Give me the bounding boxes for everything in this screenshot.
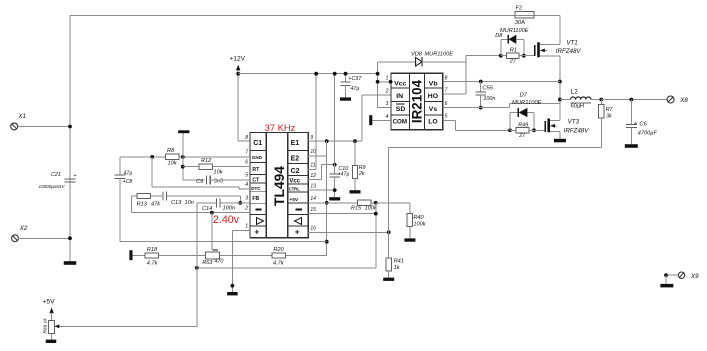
wire R69 to ground [51,333,53,339]
svg-text:R63: R63 [202,260,212,266]
svg-text:R40: R40 [413,215,424,221]
svg-text:47k: 47k [151,201,161,207]
node above ground [231,284,235,288]
node E1 junction [325,139,329,143]
wire R40 jog [376,202,410,204]
wire X9 to ground [666,274,678,276]
wire node to R12 [183,166,199,168]
transistor Q2 VT3 IRFZ48V [544,121,546,132]
svg-text:27: 27 [509,58,517,64]
svg-text:TL494: TL494 [272,166,287,206]
node CTRL junction [333,188,337,192]
wire R1 to VT1 gate [519,55,535,57]
svg-text:IN: IN [396,93,403,100]
wire Vs pin6 row [443,107,510,109]
op-amp U1 TL494 body [250,133,308,238]
svg-text:2.40v: 2.40v [213,214,240,226]
wire R9 to ground [354,178,356,190]
svg-text:VT3: VT3 [568,118,580,125]
wire E2 pin10 to E1 [308,155,327,157]
svg-text:47µ: 47µ [351,86,360,92]
svg-text:2: 2 [244,206,248,212]
svg-text:15: 15 [310,207,316,213]
svg-text:E2: E2 [291,156,300,163]
svg-text:L2: L2 [571,88,578,95]
svg-text:VD8: VD8 [411,51,423,57]
node +12V VD8 junction [376,72,380,76]
svg-text:R49: R49 [518,122,528,128]
pin label minus right [296,209,302,211]
svg-text:R20: R20 [273,247,284,253]
node junction X2-rail [68,236,72,240]
svg-text:HO: HO [428,93,438,100]
wire pin15 vertical [375,203,377,268]
svg-text:Vs: Vs [429,106,438,113]
svg-text:C9: C9 [196,179,203,185]
svg-text:RT: RT [252,167,260,173]
transistor Q1 VT1 IRFZ48V [534,45,536,56]
svg-text:4: 4 [386,114,389,120]
svg-text:GND: GND [252,155,263,160]
svg-text:5: 5 [245,173,248,179]
wire pin2 up to R13 [131,196,133,213]
svg-text:FB: FB [252,196,259,202]
ground below C6 [625,144,638,148]
svg-text:VT1: VT1 [566,40,577,47]
node R9 junction [353,139,357,143]
svg-text:+47µ: +47µ [338,172,350,178]
svg-text:470: 470 [214,258,223,264]
wire R41 to pin16 [388,232,390,258]
wire TL494 pin 8 C1 to +12V [238,140,250,142]
wire +12V vertical to TL494 pin 8 [237,70,239,141]
node C14 return junction [195,266,199,270]
svg-text:100k: 100k [413,222,426,228]
node C55 top junction [479,80,483,84]
svg-text:+: + [295,227,300,237]
wire output sense vertical [388,147,390,232]
svg-text:8: 8 [445,75,448,81]
svg-text:CT: CT [252,177,260,183]
svg-text:4700µF: 4700µF [638,131,658,137]
svg-text:C1: C1 [253,140,262,147]
capacitor C13 10n [162,192,164,201]
terminal X8 [667,96,674,103]
node C8-R8-DTC junction [150,155,154,159]
node pin16 junction [387,230,391,234]
node Vcc junction [333,163,337,167]
ground stub at COM [369,115,372,125]
resistor R41 1k [386,258,391,271]
svg-text:COM: COM [393,118,407,125]
svg-text:+C37: +C37 [348,76,362,82]
wire C2 pin11 to +12V [308,169,316,171]
wire R69 wiper long run [55,325,197,327]
wire SD pin3 [378,106,391,108]
wire VT3 source to ground [559,131,561,139]
node switch node junction [558,98,562,102]
wire +5V node vertical [326,141,328,255]
svg-text:2k: 2k [358,171,365,177]
wire R12 to TL494 pin 6 RT [213,166,250,168]
ground below C37 [340,97,351,100]
svg-text:R18: R18 [147,247,158,253]
node +12V junction [236,72,240,76]
capacitor C9 3n3 [206,175,208,184]
svg-text:7: 7 [445,88,448,94]
resistor R1 27 [501,55,507,57]
wire HO node to R1 D8 [466,55,501,57]
svg-text:Vcc: Vcc [289,179,300,185]
wire LO pin5 jog [443,119,456,121]
node +5V to divider junction [325,240,329,244]
wire TL494 pin 2 long run [132,212,251,214]
svg-text:X2: X2 [19,225,28,232]
wire Vb pin8 row [443,81,560,83]
wire R13 to C13 [151,195,162,197]
svg-text:E1: E1 [291,140,300,147]
inductor L2 60uH [560,99,571,101]
resistor R15 100k [358,200,372,205]
wire C55 bottom to Vs [480,95,482,108]
node D8 right junction [522,54,526,58]
svg-text:14: 14 [310,196,316,202]
fuse F2 30A [515,11,534,18]
node FB junction [238,201,242,205]
svg-text:R69 1k: R69 1k [42,318,48,334]
svg-text:X9: X9 [690,273,699,280]
wire TL494 pin1 to ground [232,230,250,232]
wire HO pin7 [443,93,466,95]
wire +12V horizontal rail [238,73,377,75]
wire +5V return row to C8 [120,241,327,243]
svg-text:F2: F2 [516,6,523,12]
ground stub left of R18 [129,250,132,260]
wire R63 to R20 [220,255,272,257]
svg-text:2: 2 [385,88,389,94]
wire C8 bottom down to +5V return row [119,178,121,241]
svg-text:27: 27 [518,133,526,139]
wire C6 to ground [630,128,632,145]
diode VD8 MUR1100E [378,61,416,63]
diode D8 MUR1100E [500,39,502,55]
wire pin14 to R15 [308,202,357,204]
node C55 bottom junction [479,106,483,110]
node C37 junction [344,72,348,76]
svg-text:IR2104: IR2104 [409,79,424,123]
svg-text:C6: C6 [639,122,647,128]
wire R18 to R63 [159,255,206,257]
wire C14 left down to divider [196,203,198,326]
wire X2 to rail [17,237,70,239]
svg-text:1: 1 [245,223,248,229]
svg-text:R41: R41 [394,259,404,265]
svg-text:3: 3 [386,101,389,107]
svg-text:R13: R13 [137,201,148,207]
svg-text:D7: D7 [520,93,528,99]
ground below R41 [383,278,394,281]
svg-text:Vb: Vb [429,80,438,87]
svg-text:+12V: +12V [230,56,246,63]
svg-text:6: 6 [245,159,248,165]
diode D7 MUR1100E [509,113,511,131]
svg-text:10k: 10k [214,170,224,176]
capacitor C21 10000u 63V [65,178,76,180]
svg-text:6: 6 [445,101,448,107]
ground below R40 [404,238,415,241]
wire R8 node up to ground [182,133,184,157]
error amp symbol left [257,218,264,225]
svg-text:+: + [73,173,76,179]
wire C14 left lead [197,202,216,204]
ground below input rail [64,261,77,265]
wire main left vertical input rail [69,15,71,261]
resistor R20 4.7k [272,253,286,258]
wire Vcc pin12 jog to +12V branch [308,179,321,181]
svg-text:X8: X8 [679,97,688,104]
svg-text:+5V: +5V [42,298,55,305]
svg-text:10: 10 [310,149,316,155]
wire C13 to FB node [167,195,241,197]
wire R20 right up to +5V node [285,255,326,257]
wire to TL494 pin 4 DTC [239,188,250,190]
wire X1 to rail [17,126,70,128]
wire C9 to TL494 pin 5 CT [210,179,250,181]
svg-text:1: 1 [386,75,389,81]
svg-text:3: 3 [245,196,248,202]
node Vb bootstrap junction [558,80,562,84]
svg-text:4: 4 [245,182,248,188]
wire C37 to ground [345,85,347,97]
svg-text:CTRL: CTRL [289,187,301,192]
node L2 output junction [599,98,603,102]
error amp symbol right [295,218,302,225]
wire top rail from input to fuse F2 and VT1 drain [70,14,560,16]
svg-text:100n: 100n [483,96,495,102]
capacitor C10 47u [330,173,340,175]
svg-text:+: + [254,227,259,237]
wire C14 to FB node [220,202,240,204]
wire R49 to VT3 gate [529,129,545,131]
capacitor C8 47u [119,157,121,175]
wire pin2 down to R63 wiper [211,213,213,250]
node pin14 +5V junction [325,201,329,205]
svg-text:MUR1100E: MUR1100E [425,51,454,57]
svg-text:C21: C21 [51,172,61,178]
svg-text:R15: R15 [351,205,362,211]
svg-text:R8: R8 [167,148,175,154]
wire output sense long run [389,146,602,148]
node pin2 wiper junction [210,211,214,215]
svg-text:IRFZ48V: IRFZ48V [556,48,582,55]
svg-text:3k: 3k [606,113,612,119]
wire VT1 source to switch node [559,56,561,100]
pin label minus left [255,209,261,211]
svg-text:4.7k: 4.7k [147,260,159,266]
capacitor C6 4700uF [630,100,632,125]
wire C8 top to R8 [120,156,166,158]
wire DTC run from R8 node [151,157,153,187]
svg-text:+: + [634,121,637,127]
svg-text:10000µx63V: 10000µx63V [39,184,66,189]
svg-text:100n: 100n [223,206,235,212]
wire Vcc pin1 [378,81,391,83]
wire R8 node down to R12 and C9 [182,157,184,180]
resistor R40 100k [407,213,412,226]
wire ground to R18 [133,255,145,257]
op-amp U2 IR2104 body [391,73,443,130]
wire long minus input row [197,267,376,269]
wire FB node to TL494 pin 3 [240,202,250,204]
resistor R7 3k [600,100,602,105]
capacitor C37 47u [345,74,347,82]
node pin15 junction [374,212,378,216]
node C2 +12V junction [314,72,318,76]
svg-text:30A: 30A [515,20,525,26]
wire VD8 cathode to HO node [422,61,466,63]
svg-text:11: 11 [310,163,315,169]
ground below VT3 [554,139,566,143]
terminal X2 [12,235,19,242]
wire output to X8 [601,99,667,101]
svg-text:Vcc: Vcc [394,80,406,87]
wire COM pin4 to ground [372,119,391,121]
svg-text:7: 7 [245,149,248,155]
node +12V branch top junction [333,72,337,76]
svg-text:MUR1100E: MUR1100E [512,100,542,106]
ground below X9 [660,284,673,288]
resistor R49 27 [510,129,516,131]
svg-text:DTC: DTC [251,186,261,191]
wire R15 to pin15 node [371,202,376,204]
terminal X1 [11,123,18,130]
node Vcc pin junction [389,80,393,84]
svg-text:+5V: +5V [289,197,298,203]
terminal X9 [678,272,684,278]
capacitor C14 100n [215,198,217,207]
svg-text:12: 12 [310,173,316,179]
svg-text:R12: R12 [201,158,212,164]
node D8 left junction [499,54,503,58]
svg-text:8: 8 [245,135,248,141]
wire VT3 drain to switch node [559,100,561,121]
wire C10 bottom to ground [334,177,336,197]
wire R40 to ground [409,226,411,238]
svg-text:5: 5 [445,114,448,120]
node D7 right junction [532,128,536,132]
node junction X1-rail [68,125,72,129]
wire node to C9 [183,179,205,181]
svg-text:10k: 10k [168,161,178,167]
potentiometer R63 470 [206,252,220,259]
wire TL494 pin15 row [308,213,376,215]
svg-text:SD: SD [396,106,406,113]
svg-text:13: 13 [310,184,316,190]
node R12 branch [181,165,185,169]
svg-text:60µH: 60µH [571,104,585,110]
svg-text:4.7k: 4.7k [273,261,285,267]
node R8 right junction [181,155,185,159]
resistor R12 10k [199,164,213,169]
svg-text:16: 16 [310,225,316,231]
potentiometer R69 1k [49,320,55,333]
svg-text:10n: 10n [185,200,194,206]
ground below R69 [46,340,57,343]
ground below C10 [329,197,340,200]
wire TL494 pin16 row [308,231,389,233]
ground below R9 [350,190,361,193]
wire TL494 E1 pin9 row [308,140,362,142]
svg-text:47µ: 47µ [124,171,133,177]
node R15 right junction [374,201,378,205]
wire R41 to ground [388,271,390,278]
resistor R9 2k [354,141,356,165]
svg-text:R7: R7 [606,107,614,113]
resistor R18 4.7k [145,253,159,258]
resistor R8 10k [166,154,180,159]
wiper arrow R69 [55,324,60,328]
svg-text:LO: LO [428,118,437,125]
wire +12V branch down to C10 [334,74,336,174]
wire CTRL pin13 to ground branch [308,189,335,191]
svg-text:R1: R1 [510,47,517,53]
node X9 ground junction [664,273,668,277]
wire R8 to TL494 pin 7 GND [179,156,250,158]
svg-text:9: 9 [310,135,313,141]
svg-text:37 KHz: 37 KHz [265,122,296,133]
svg-text:C13: C13 [171,200,182,206]
svg-text:C55: C55 [482,86,493,92]
ground for pin1 [227,292,238,295]
svg-text:+C8: +C8 [123,179,133,185]
svg-text:C2: C2 [291,168,300,175]
node D7 left junction [508,128,512,132]
svg-text:X1: X1 [17,113,26,120]
resistor R13 47k [137,193,151,198]
svg-text:IRFZ48V: IRFZ48V [564,127,590,134]
capacitor C55 100n [480,82,482,93]
ground above R8 node inverted [178,130,189,133]
node Vcc left junction [376,80,380,84]
node C6 junction [629,98,633,102]
wire R7 down to sense run [600,118,602,148]
wire E1 node up to IR2104 IN [361,95,363,141]
svg-text:MUR1100E: MUR1100E [500,28,529,34]
wire +12V to SD vertical [377,62,379,108]
